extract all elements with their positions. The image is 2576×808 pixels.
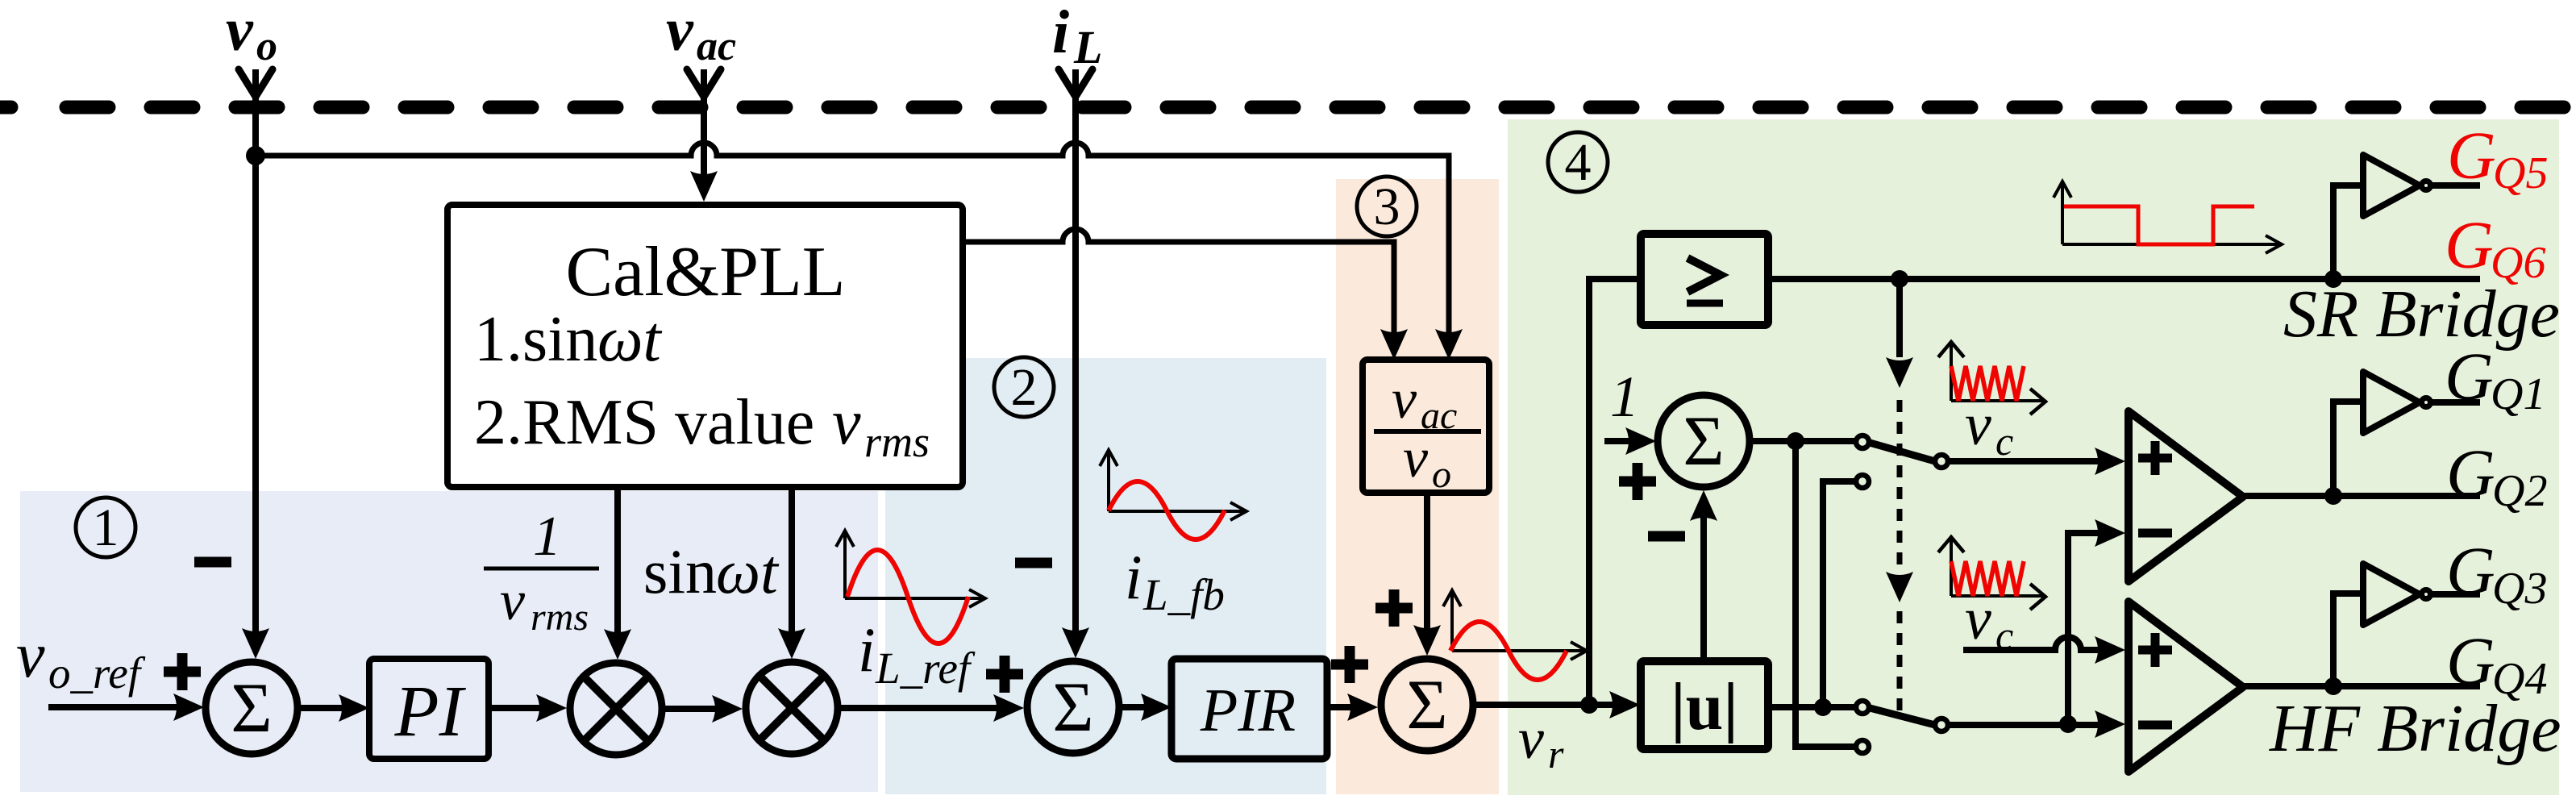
arrow into S2 [993,694,1024,722]
dashed boundary line [66,101,2572,115]
wire v_ac vertical [701,69,707,184]
switch SW1 contact a [1856,435,1869,448]
block divider vac/vo [1363,360,1489,496]
svg-text:o_ref: o_ref [48,648,146,698]
label G_Q4 [2446,624,2547,704]
sign minus at S1 [194,557,231,568]
svg-text:v: v [666,0,694,64]
switch SW1 upper lever [1870,443,1935,461]
svg-text:3: 3 [1374,177,1400,236]
arrow W1 into divider box [1435,329,1463,360]
multiplier X2 [746,662,838,754]
label vc upper [1965,392,2013,464]
svg-text:i: i [858,614,876,685]
wire Cal&PLL output 1/vrms [614,487,621,642]
node C1 out junction [2324,487,2342,505]
svg-text:ωt: ωt [716,536,780,606]
svg-text:G: G [2447,119,2496,194]
svg-text:4: 4 [1565,133,1592,192]
arrow switch control [1886,357,1913,388]
svg-text:ωt: ωt [597,304,662,375]
region 3 shaded band [1336,179,1499,794]
region 2 shaded band [885,358,1326,794]
label circled 2 [994,357,1054,417]
buffer B1 [2363,372,2420,433]
svg-text:o: o [1432,453,1451,496]
wire junction up to C1 minus [2068,533,2108,724]
waveform icon sine iL_fb [1100,450,1246,539]
svg-text:G: G [2445,339,2494,414]
wire S1 to PI [301,705,352,711]
block comparator GE [1641,234,1768,325]
wire vr feedback up to comparator GE [1589,279,1641,705]
waveform icon sine iL_ref [836,531,985,643]
wire SW1 pole to comparator C1 plus [1949,458,2108,464]
region 1 shaded band [20,491,878,792]
label vr [1518,706,1564,777]
svg-text:r: r [1548,731,1564,777]
wire to buffer B5 [2333,185,2363,279]
label i_L_fb [1125,542,1225,619]
svg-text:1.sin: 1.sin [474,304,597,375]
label G_Q5 [2447,119,2548,198]
buffer B3 [2363,564,2420,625]
arrow into S3 top [1413,625,1441,656]
wire cross abs-to-upper-switch [1823,481,1854,707]
svg-text:G: G [2446,624,2495,699]
svg-text:G: G [2445,208,2494,283]
svg-text:sin: sin [643,536,717,606]
arrow into multiplier X2 [778,628,805,659]
svg-text:i: i [1125,542,1142,612]
label circled 1 [76,498,135,557]
wire B5 output [2432,182,2480,189]
svg-text:c: c [1995,419,2013,464]
node abs out junction [1814,698,1832,716]
wire switch control dashed lower [1897,611,1903,719]
wire X1 to X2 [665,706,725,712]
arrow into C2 minus [2095,710,2125,738]
wire to buffer B1 [2333,402,2363,496]
summer S3 [1381,659,1473,751]
arrow into summer S2 [1062,627,1089,658]
block abs u [1641,661,1768,749]
buffer B5 bubble [2422,181,2431,190]
arrow into PIR [1141,693,1171,721]
svg-text:Σ: Σ [1052,668,1093,747]
label i_L_ref [858,614,976,693]
switch SW2 contact b [1856,740,1869,753]
svg-text:v: v [1392,369,1417,431]
input i_L label [1052,0,1102,73]
svg-text:v: v [1518,706,1544,771]
summer S1 [206,662,298,754]
arrow into Cal&PLL box [690,171,718,202]
svg-text:Σ: Σ [1683,402,1724,481]
svg-text:Cal&PLL: Cal&PLL [565,233,845,311]
sign plus at S3 top [1375,589,1413,627]
svg-text:o: o [256,23,277,69]
arrow into summer S1 [242,628,269,659]
wire i_L vertical [1072,69,1079,640]
arrow into PI [339,694,369,722]
node S4 out junction [1787,432,1804,450]
waveform icon square wave [2054,181,2282,253]
label circled 3 [1357,177,1417,236]
wire abs output to switch [1768,704,1856,710]
wire comparator C1 output [2245,493,2480,499]
wire switch control dashed upper [1897,400,1903,566]
svg-text:i: i [1052,0,1069,66]
switch SW1 pole [1935,455,1948,468]
buffer B5 [2363,155,2420,216]
multiplier X1 [570,663,662,755]
svg-text:v: v [500,570,526,632]
waveform icon sawtooth vc lower [1938,537,2045,610]
sign plus at S1 [164,653,201,690]
wire SW2 pole to comparator C2 minus [1949,722,2108,728]
svg-text:Σ: Σ [231,669,272,748]
sign plus at S2 [986,656,1023,693]
arrow W2 into divider box [1380,329,1408,360]
svg-text:rms: rms [864,418,930,466]
arrow into X2 [712,695,743,723]
svg-text:Q5: Q5 [2493,148,2548,198]
comparator C1 [2129,411,2243,581]
node GE out junction [1891,270,1908,288]
wire to buffer B3 [2333,594,2363,686]
wire B3 output [2432,591,2480,598]
arrow into C2 plus [2095,636,2125,664]
input v_ac label [666,0,736,69]
wire S3 to abs block [1476,702,1622,708]
comparator C2 [2129,602,2243,772]
svg-text:v: v [1403,427,1429,489]
svg-text:1: 1 [93,498,119,557]
input v_ac entry arrow (crow foot) [687,69,721,97]
arrow into summer S1 [173,693,204,721]
wire PI to X1 [489,705,549,711]
label G_Q6 [2445,208,2545,288]
label sinwt [643,536,780,606]
svg-text:L: L [1073,21,1102,73]
switch SW1 contact b [1856,475,1869,488]
wire divider to S3 [1424,493,1430,638]
input v_o label [226,0,277,69]
wire S4 output to switch [1753,438,1856,444]
wire GE output to SR bridge [1768,276,2480,282]
arrow into C1 plus [2095,448,2125,475]
arrow into S4 bottom [1690,490,1717,521]
wire PIR to S3 [1327,704,1360,710]
svg-text:HF Bridge: HF Bridge [2269,691,2561,766]
label vc lower [1965,586,2013,658]
svg-text:L_fb: L_fb [1142,570,1225,619]
arrow into C1 minus [2095,519,2125,547]
node vr junction [1580,696,1598,714]
svg-text:Σ: Σ [1406,666,1447,744]
svg-text:1: 1 [1610,364,1639,429]
input i_L entry arrow (crow foot) [1059,69,1092,97]
label 1/vrms fraction [484,506,599,639]
svg-text:G: G [2446,436,2495,511]
arrow into summer S4 [1625,427,1656,455]
sign minus at S2 [1015,558,1052,569]
svg-text:|u|: |u| [1671,669,1738,744]
summer S4 [1658,395,1750,487]
block PI [369,659,489,759]
arrow into abs block [1609,691,1640,718]
svg-text:Q1: Q1 [2491,369,2545,419]
svg-text:Q3: Q3 [2492,564,2547,614]
node C2 out junction [2324,677,2342,695]
buffer B3 bubble [2422,590,2431,599]
svg-text:PI: PI [394,672,467,752]
wire constant 1 stub [1604,438,1638,444]
wire abs to S4 [1700,508,1707,661]
svg-text:L_ref: L_ref [875,643,976,693]
waveform icon sawtooth vc upper [1938,342,2045,414]
wire switch control solid [1896,279,1903,357]
wire X2 to S2 [841,705,1006,711]
svg-text:c: c [1995,613,2013,658]
sign plus at S4 [1619,463,1656,500]
waveform icon sine vr [1443,590,1587,680]
input v_o entry arrow (crow foot) [239,69,273,97]
svg-text:1: 1 [533,506,561,568]
switch SW2 contact a [1856,701,1869,714]
wire carrier vc into C2 plus (hop over vertical) [1963,637,2108,650]
svg-text:v: v [832,387,861,458]
label G_Q1 [2445,339,2545,419]
node v_o junction [246,146,265,165]
wire W1 from v_o junction to divider box (hops over v_ac and i_L) [256,143,1449,342]
wire v_o vertical [252,69,259,641]
svg-text:SR Bridge: SR Bridge [2283,277,2560,352]
sign minus at S4 [1648,531,1685,542]
region 4 shaded band [1508,119,2559,795]
wire B1 output [2432,399,2480,406]
label v_o_ref [16,620,146,698]
switch SW2 pole [1935,718,1948,731]
wire S2 to PIR [1122,704,1154,710]
block Cal&PLL [447,205,963,487]
wire W2 from Cal&PLL right side to divider box (hops over i_L) [963,229,1394,342]
svg-text:v: v [1965,586,1991,652]
wire comparator C2 output [2245,683,2480,689]
label circled 4 [1548,132,1608,192]
svg-text:G: G [2446,534,2495,609]
block PIR [1171,659,1327,759]
svg-text:rms: rms [531,596,589,639]
svg-text:v: v [226,0,254,64]
arrow into multiplier X1 [604,629,631,660]
node SR buffer junction [2324,270,2342,288]
svg-text:2.RMS value: 2.RMS value [474,387,814,458]
arrow into X1 [536,694,567,722]
wire Cal&PLL output sinwt [789,487,795,641]
label G_Q2 [2446,436,2547,516]
svg-text:Q2: Q2 [2492,466,2547,516]
arrow into S3 [1347,693,1378,721]
buffer B1 bubble [2422,398,2431,407]
svg-text:ac: ac [697,23,736,69]
switch SW2 lower lever [1870,708,1935,725]
label G_Q3 [2446,534,2547,614]
svg-text:2: 2 [1011,358,1038,417]
wire cross S4-to-lower-switch [1796,441,1854,747]
arrow switch control mid [1886,572,1913,602]
svg-text:v: v [1965,392,1991,458]
svg-text:v: v [16,620,45,691]
summer S2 [1027,661,1119,753]
wire v_o_ref input [48,704,185,710]
sign plus at S3 left [1331,646,1368,683]
svg-text:PIR: PIR [1200,677,1296,744]
node C-input junction [2059,715,2077,733]
